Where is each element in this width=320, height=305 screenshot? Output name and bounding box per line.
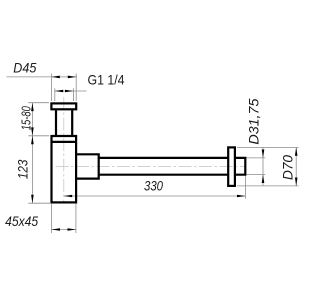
svg-text:15-80: 15-80: [19, 106, 34, 131]
trap body: [52, 136, 77, 202]
svg-text:D70: D70: [281, 155, 296, 180]
dimension line D31,75: [262, 148, 264, 186]
body top ring line: [52, 141, 77, 143]
dimension line 330: [64, 195, 246, 197]
extension lines for D70: [237, 147, 299, 186]
dimension line G1 1/4: [55, 90, 87, 92]
extension lines for D45: [51, 74, 76, 102]
extension line 330 right: [244, 176, 246, 199]
dimension line D45: [7, 76, 78, 78]
wall flange: [228, 147, 235, 186]
tailpiece pipe: [56, 109, 72, 136]
extension lines for 45x45: [52, 204, 76, 233]
svg-text:123: 123: [16, 159, 31, 179]
outlet nut: [76, 154, 99, 178]
arrowheads 15-80: [31, 103, 34, 136]
arrowheads D45: [51, 76, 76, 79]
arrowheads G1 1/4: [55, 90, 74, 93]
wall pipe stub: [235, 158, 245, 175]
svg-text:D31,75: D31,75: [247, 98, 262, 145]
extension line 123 bottom: [28, 202, 50, 204]
svg-text:G1 1/4: G1 1/4: [88, 72, 125, 88]
svg-text:D45: D45: [13, 59, 36, 75]
arrowheads 45x45: [52, 228, 76, 231]
arrowheads 330: [64, 195, 246, 198]
arrowheads D31,75: [262, 150, 265, 184]
dimension line 123: [31, 136, 33, 203]
arrowheads 123: [31, 136, 34, 203]
extension lines for G1 1/4: [55, 88, 74, 101]
extension lines for 15-80: [28, 103, 49, 136]
dimension line 15-80: [31, 103, 33, 136]
outlet tube: [99, 158, 229, 175]
horizontal centerline of outlet tube: [56, 165, 247, 167]
svg-text:45x45: 45x45: [5, 213, 38, 229]
svg-text:330: 330: [144, 178, 163, 194]
dimension line 45x45: [52, 229, 76, 231]
dimension line D70: [295, 147, 297, 186]
top flange of tailpiece: [51, 103, 76, 109]
vertical centerline of body: [63, 97, 65, 204]
arrowheads D70: [295, 147, 298, 186]
extension lines for D31,75: [247, 158, 266, 175]
